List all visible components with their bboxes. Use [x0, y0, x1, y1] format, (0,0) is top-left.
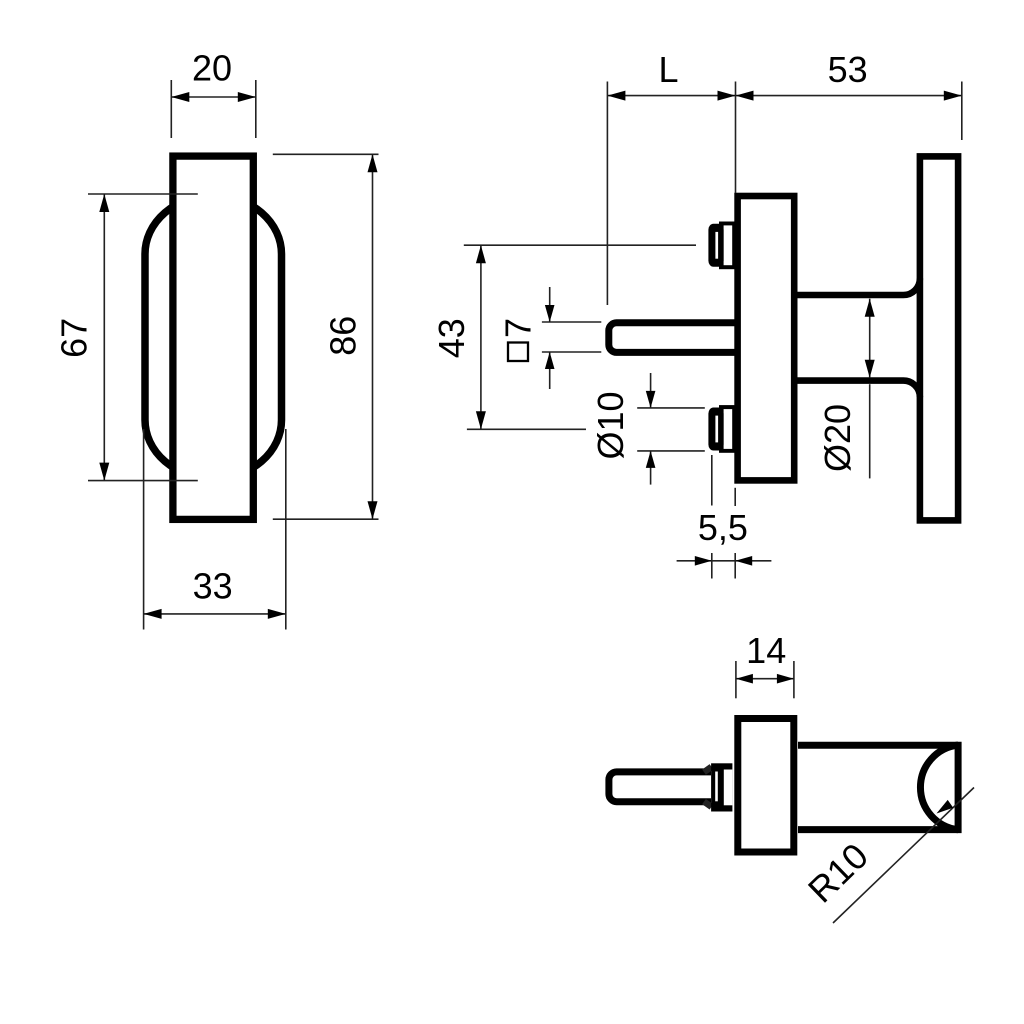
- svg-text:33: 33: [193, 565, 233, 606]
- svg-text:43: 43: [431, 318, 472, 358]
- svg-text:7: 7: [498, 318, 539, 338]
- svg-text:Ø20: Ø20: [817, 404, 858, 472]
- svg-text:53: 53: [828, 49, 868, 90]
- svg-text:14: 14: [746, 630, 786, 671]
- svg-text:86: 86: [322, 316, 363, 356]
- svg-text:20: 20: [192, 47, 232, 88]
- svg-text:67: 67: [54, 318, 95, 358]
- svg-text:L: L: [658, 49, 678, 90]
- svg-text:5,5: 5,5: [698, 507, 748, 548]
- svg-text:Ø10: Ø10: [590, 391, 631, 459]
